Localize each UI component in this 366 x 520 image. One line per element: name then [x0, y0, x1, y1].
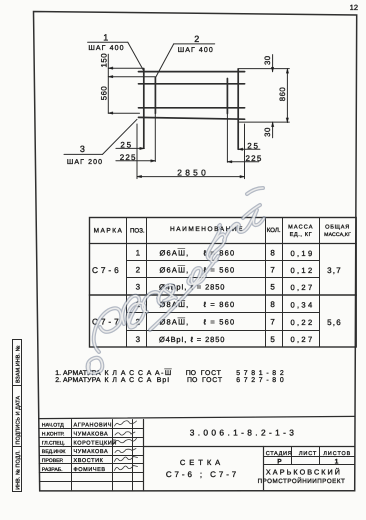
svg-text:0,12: 0,12: [291, 266, 315, 275]
svg-text:ПОДПИСЬ И ДАТА: ПОДПИСЬ И ДАТА: [16, 396, 22, 445]
svg-text:ЕД., КГ: ЕД., КГ: [290, 232, 313, 238]
table kol column: [270, 249, 275, 345]
svg-text:ℓ = 2850: ℓ = 2850: [191, 335, 226, 344]
svg-text:ЛИСТ: ЛИСТ: [299, 451, 317, 457]
svg-text:ВЕД.ИНЖ: ВЕД.ИНЖ: [42, 449, 66, 455]
svg-text:2850: 2850: [177, 167, 209, 177]
svg-text:ВЗАМ.ИНВ. №: ВЗАМ.ИНВ. №: [16, 345, 22, 383]
sidebar box Подпись и дата: [13, 386, 22, 447]
svg-text:8: 8: [270, 249, 275, 258]
svg-text:3: 3: [80, 144, 85, 154]
svg-text:8: 8: [270, 300, 275, 309]
svg-text:КОЛ.: КОЛ.: [267, 227, 281, 234]
svg-text:РАЗРАБ.: РАЗРАБ.: [42, 467, 63, 473]
svg-text:ШАГ 400: ШАГ 400: [88, 45, 124, 52]
mesh horizontal wire w2: [139, 83, 245, 85]
svg-text:ℓ = 860: ℓ = 860: [204, 300, 236, 309]
svg-text:Ø6АШ,: Ø6АШ,: [160, 249, 190, 258]
svg-text:5781-82: 5781-82: [236, 370, 287, 377]
svg-text:С7-6: С7-6: [92, 265, 122, 275]
bottom-left dims 25 / 225: [116, 113, 155, 162]
svg-text:СЕТКА: СЕТКА: [180, 458, 224, 467]
svg-text:ПРОМСТРОЙНИИПРОЕКТ: ПРОМСТРОЙНИИПРОЕКТ: [258, 477, 346, 485]
sidebar box Взам.инв.№: [13, 340, 22, 386]
watermark cursive outline: [88, 188, 264, 373]
svg-text:ШАГ 400: ШАГ 400: [178, 47, 214, 54]
bottom-right dims 25 / 225: [227, 114, 262, 164]
sidebar box Инв.№ подл.: [13, 447, 22, 492]
svg-text:А-Ш: А-Ш: [155, 370, 173, 377]
svg-text:860: 860: [278, 87, 287, 102]
svg-text:ℓ = 560: ℓ = 560: [204, 318, 236, 327]
svg-text:Ø6АШ,: Ø6АШ,: [160, 266, 190, 275]
mesh right long bar poz1: [237, 69, 239, 150]
svg-text:ИНВ. № ПОДЛ.: ИНВ. № ПОДЛ.: [16, 450, 22, 489]
table massa column: [291, 249, 315, 344]
svg-text:560: 560: [99, 86, 108, 101]
table header texts: [94, 224, 351, 238]
svg-text:1: 1: [136, 249, 141, 258]
svg-text:225: 225: [120, 153, 137, 162]
svg-text:3: 3: [136, 283, 141, 292]
svg-text:0,27: 0,27: [291, 283, 315, 292]
svg-text:ХАРЬКОВСКИЙ: ХАРЬКОВСКИЙ: [266, 468, 342, 477]
svg-text:150: 150: [99, 53, 108, 68]
mesh right short bar poz2: [226, 79, 228, 114]
svg-text:ЛИСТОВ: ЛИСТОВ: [323, 451, 351, 457]
title block staff names: [74, 423, 117, 473]
svg-text:ГЛ.СПЕЦ.: ГЛ.СПЕЦ.: [42, 440, 65, 446]
bottom overall dim 2850: [137, 124, 245, 179]
svg-text:3: 3: [136, 335, 141, 344]
svg-text:225: 225: [246, 154, 263, 163]
leader 2 shelf: [156, 34, 215, 77]
svg-text:КОРОТЕЦКИЙ: КОРОТЕЦКИЙ: [74, 439, 117, 446]
svg-text:ЧУМАКОВА: ЧУМАКОВА: [74, 449, 109, 455]
svg-text:МАССА: МАССА: [288, 224, 313, 230]
svg-text:ПО: ПО: [186, 370, 197, 377]
svg-text:0,19: 0,19: [291, 249, 315, 258]
svg-text:ПО: ПО: [187, 377, 198, 384]
svg-text:С7-6 ; С7-7: С7-6 ; С7-7: [166, 470, 239, 479]
svg-text:2: 2: [136, 266, 141, 275]
svg-text:Н.КОНТР.: Н.КОНТР.: [42, 432, 65, 438]
table poz numbers: [136, 249, 141, 345]
mesh horizontal wire w1: [139, 71, 245, 73]
svg-text:КЛАССА: КЛАССА: [105, 377, 156, 384]
svg-text:5: 5: [270, 283, 275, 292]
svg-text:ВрІ: ВрІ: [157, 377, 170, 384]
svg-text:ГОСТ: ГОСТ: [201, 370, 222, 377]
svg-text:МАРКА: МАРКА: [94, 227, 124, 234]
notes line 1: [55, 369, 287, 377]
svg-text:0,34: 0,34: [291, 301, 315, 310]
table obshchaya massa column: [327, 266, 342, 327]
svg-text:2.: 2.: [55, 377, 61, 384]
svg-text:3.006.1-8.2-1-3: 3.006.1-8.2-1-3: [190, 427, 298, 437]
watermark inner highlight: [88, 188, 264, 373]
specification table grid: [90, 218, 357, 348]
svg-text:Р: Р: [277, 459, 282, 466]
svg-text:МАССА,КГ: МАССА,КГ: [324, 232, 351, 238]
svg-text:Ø4ВрІ,: Ø4ВрІ,: [159, 335, 187, 344]
svg-text:НАЧ.ОТД: НАЧ.ОТД: [42, 423, 64, 429]
stadia list listov header: [266, 451, 352, 457]
notes line 2: [55, 377, 287, 384]
mesh horizontal wire w3: [139, 107, 245, 109]
svg-text:1: 1: [335, 458, 339, 465]
right dimension 860 with 30 top and bottom: [239, 55, 289, 138]
svg-text:ЧУМАКОВА: ЧУМАКОВА: [74, 432, 109, 438]
mesh left short bar poz2: [154, 78, 156, 114]
svg-text:25: 25: [247, 141, 260, 150]
svg-text:ФОМИЧЕВ: ФОМИЧЕВ: [74, 467, 106, 473]
svg-text:ШАГ 200: ШАГ 200: [67, 159, 103, 166]
svg-text:3,7: 3,7: [327, 266, 342, 275]
svg-text:12: 12: [350, 3, 358, 12]
svg-text:6727-80: 6727-80: [236, 377, 287, 384]
table naimenovanie rows: [159, 249, 235, 345]
svg-text:0,22: 0,22: [291, 318, 315, 327]
svg-text:1: 1: [103, 33, 108, 43]
svg-text:5: 5: [270, 335, 275, 344]
svg-text:30: 30: [263, 55, 272, 65]
stadia values: [277, 458, 338, 465]
svg-text:7: 7: [270, 318, 275, 327]
svg-text:25: 25: [120, 140, 133, 149]
leader 1 shelf: [88, 33, 144, 71]
signatures squiggles: [115, 421, 138, 471]
svg-text:5,6: 5,6: [327, 318, 342, 327]
svg-text:0,27: 0,27: [291, 335, 315, 344]
table marka column: [92, 265, 122, 327]
svg-text:СТАДИЯ: СТАДИЯ: [266, 451, 292, 457]
svg-text:ПОЗ.: ПОЗ.: [130, 227, 145, 234]
svg-text:ГОСТ: ГОСТ: [202, 377, 223, 384]
svg-text:1.: 1.: [55, 370, 61, 377]
svg-text:ОБЩАЯ: ОБЩАЯ: [325, 224, 350, 230]
svg-text:ПРОВЕР.: ПРОВЕР.: [42, 458, 64, 464]
leader 3 shelf: [64, 119, 137, 166]
svg-text:АРМАТУРА: АРМАТУРА: [63, 377, 101, 384]
svg-text:ХВОСТИК: ХВОСТИК: [74, 458, 104, 464]
left dimension chain 150/560: [99, 53, 155, 115]
title block grid: [39, 416, 355, 490]
svg-text:АГРАНОВИЧ: АГРАНОВИЧ: [74, 423, 113, 429]
svg-text:7: 7: [270, 266, 275, 275]
svg-text:30: 30: [263, 127, 272, 137]
title block staff labels: [42, 423, 66, 473]
svg-text:КЛАССА: КЛАССА: [105, 370, 156, 377]
mesh horizontal wire w4: [139, 117, 245, 119]
svg-text:2: 2: [194, 34, 199, 44]
mesh left long bar poz1: [143, 69, 145, 149]
